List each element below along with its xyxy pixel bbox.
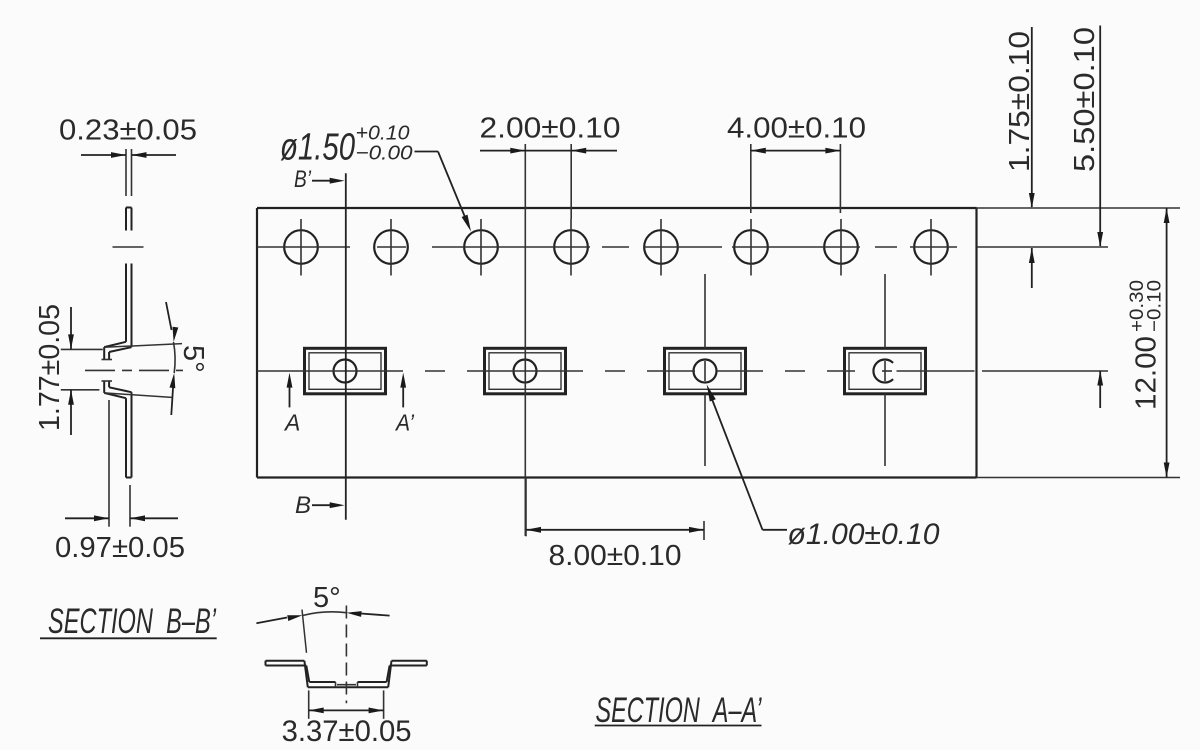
svg-text:SECTION B–B’: SECTION B–B’ [48,602,217,641]
svg-text:A: A [283,410,300,436]
svg-text:2.00±0.10: 2.00±0.10 [480,113,621,145]
svg-text:0.23±0.05: 0.23±0.05 [59,115,197,147]
svg-text:+0.10: +0.10 [356,123,410,145]
svg-text:A’: A’ [394,410,415,436]
svg-text:SECTION A–A’: SECTION A–A’ [596,691,763,730]
svg-text:0.97±0.05: 0.97±0.05 [55,532,185,564]
svg-text:ø1.00±0.10: ø1.00±0.10 [788,518,940,551]
svg-text:3.37±0.05: 3.37±0.05 [282,715,412,748]
svg-text:12.00: 12.00 [1131,336,1163,410]
svg-text:5°: 5° [313,582,341,614]
svg-text:8.00±0.10: 8.00±0.10 [549,540,682,572]
svg-text:−0.00: −0.00 [356,143,413,165]
svg-text:−0.10: −0.10 [1145,280,1166,332]
svg-text:5.50±0.10: 5.50±0.10 [1069,27,1101,172]
svg-text:5°: 5° [177,345,209,373]
svg-text:1.75±0.10: 1.75±0.10 [1004,31,1036,172]
svg-text:B: B [295,492,311,519]
svg-text:1.77±0.05: 1.77±0.05 [34,304,66,431]
svg-text:ø1.50: ø1.50 [280,127,355,169]
svg-text:B’: B’ [294,166,312,193]
svg-text:4.00±0.10: 4.00±0.10 [727,113,866,145]
